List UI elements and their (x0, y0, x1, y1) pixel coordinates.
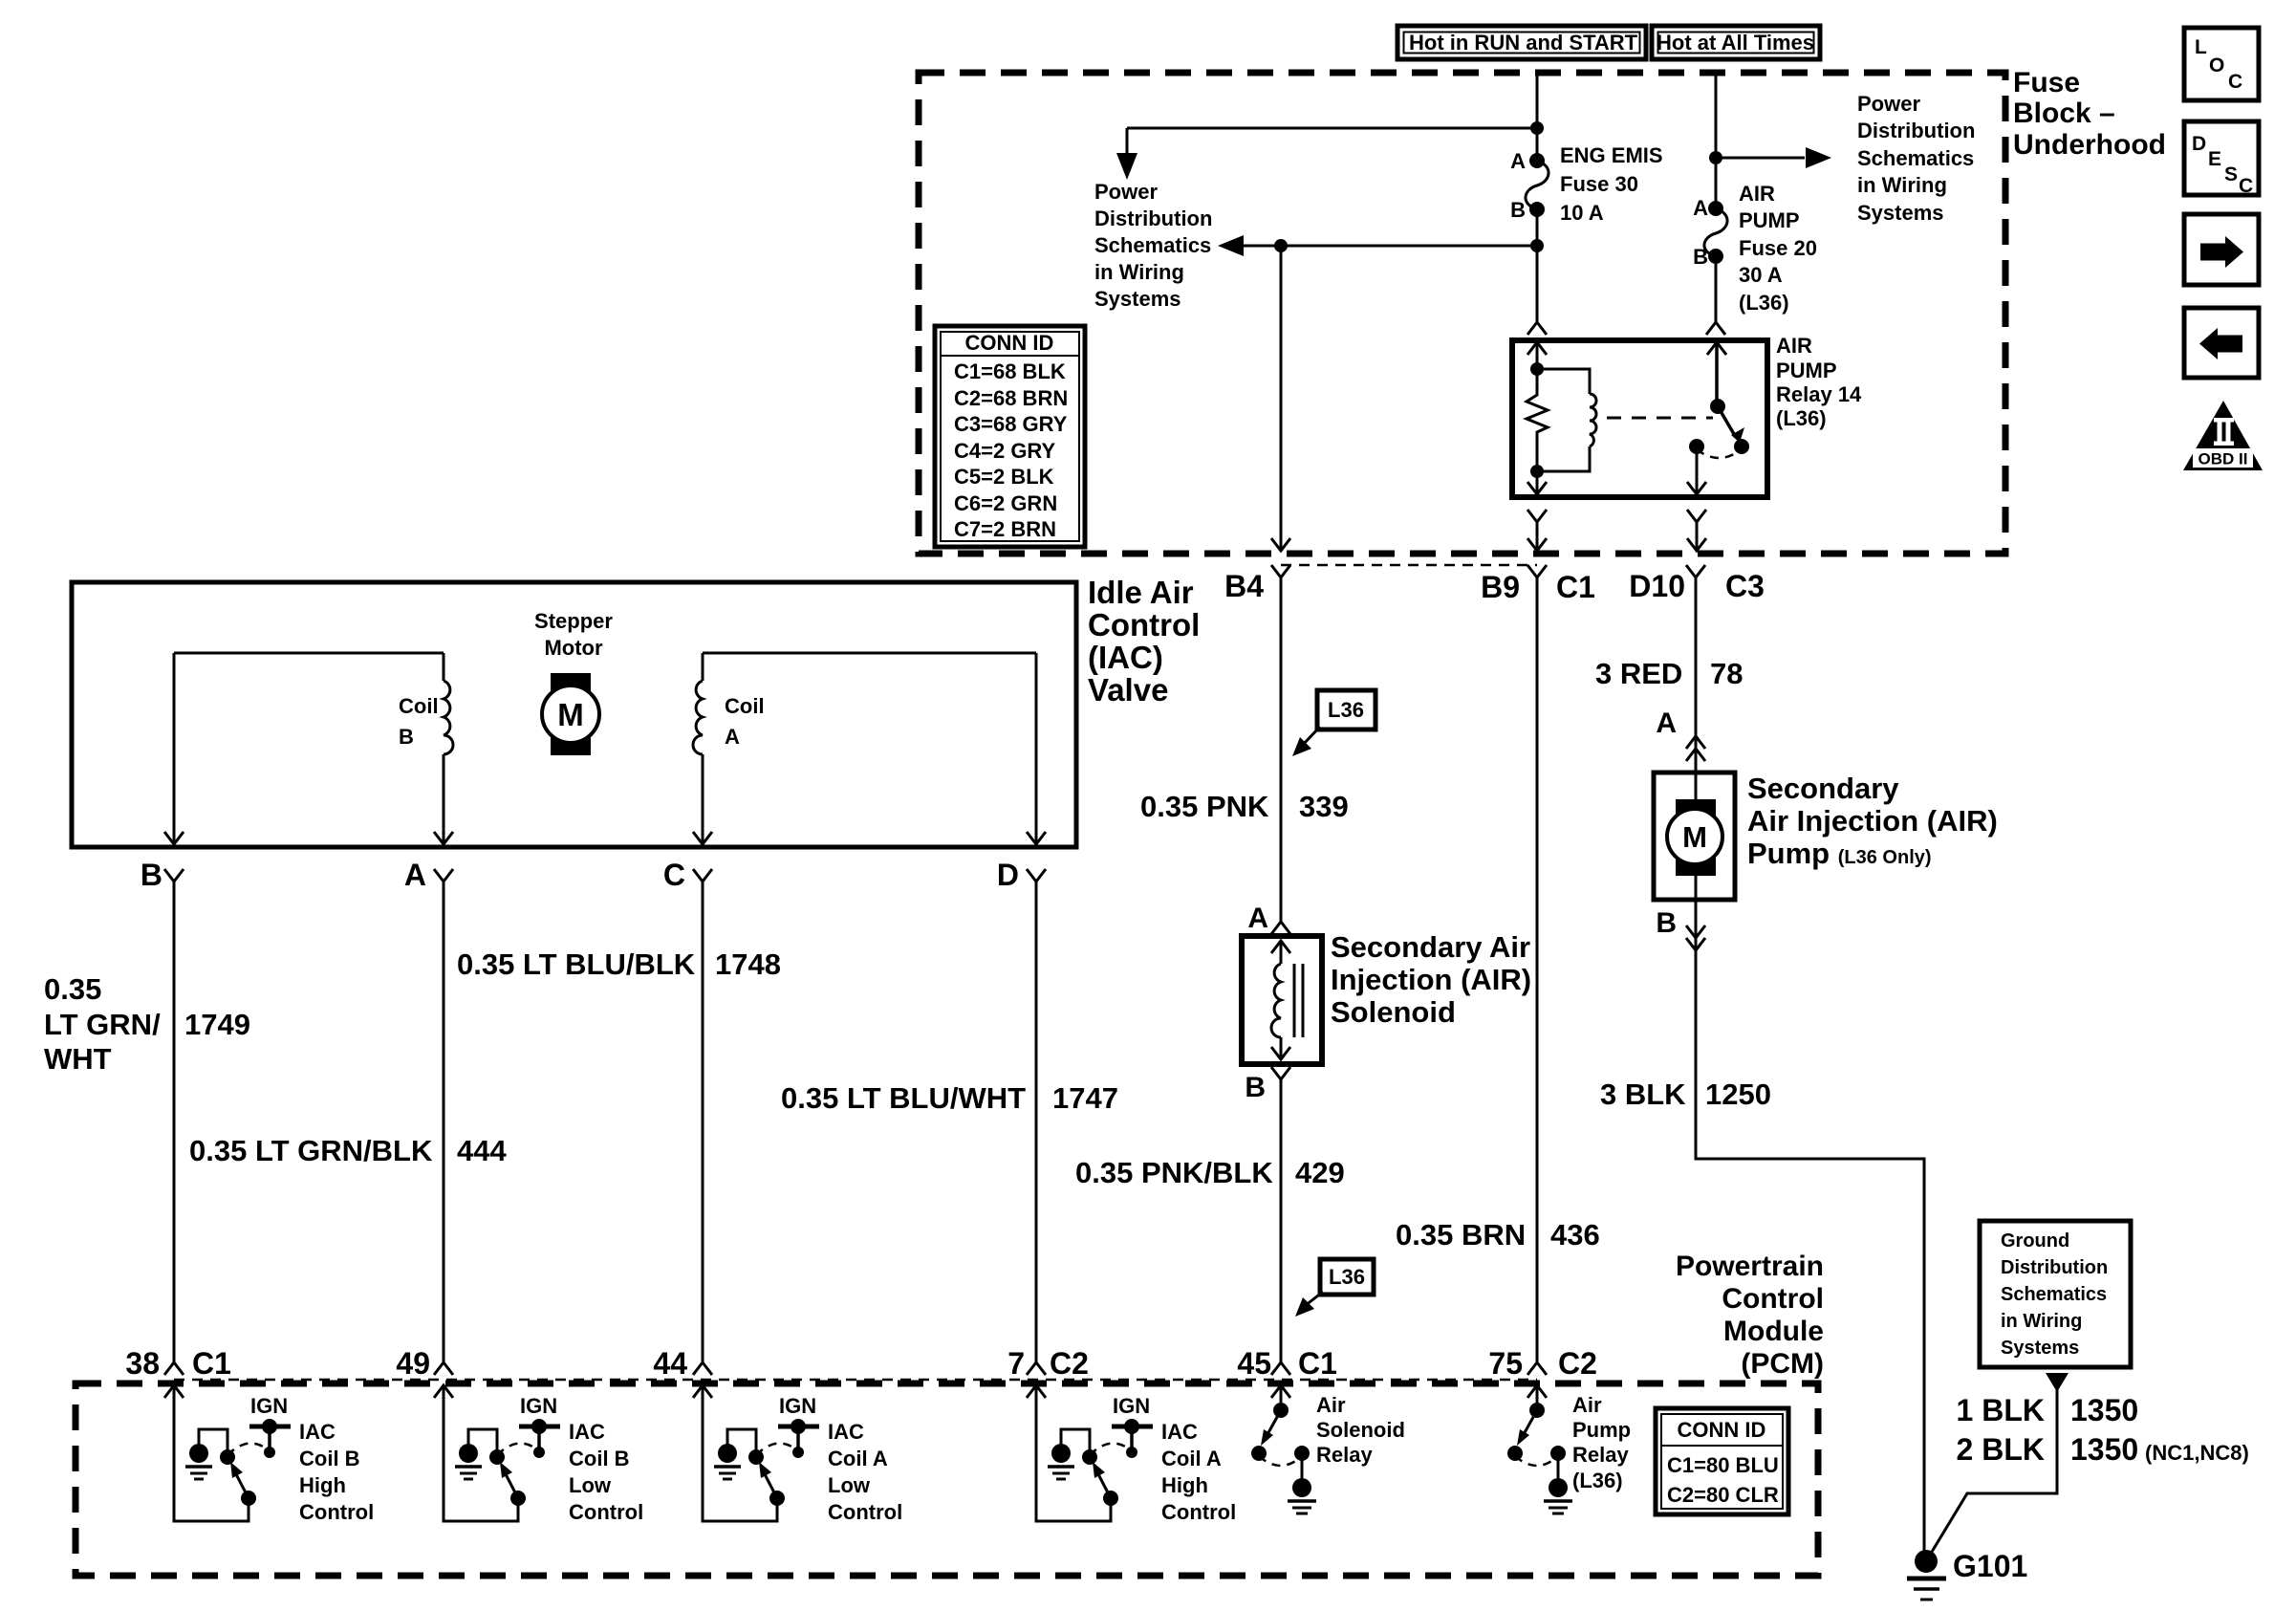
svg-text:IAC: IAC (828, 1420, 864, 1444)
svg-text:Relay 14: Relay 14 (1776, 382, 1862, 406)
svg-text:Coil B: Coil B (299, 1447, 360, 1470)
svg-text:339: 339 (1299, 790, 1349, 823)
svg-text:A: A (725, 725, 740, 749)
svg-text:Systems: Systems (2001, 1338, 2079, 1359)
svg-text:Schematics: Schematics (1857, 146, 1974, 170)
svg-text:436: 436 (1550, 1218, 1600, 1252)
svg-text:Systems: Systems (1094, 287, 1181, 311)
svg-text:Module: Module (1723, 1316, 1824, 1347)
svg-text:C2: C2 (1558, 1346, 1597, 1381)
svg-text:(PCM): (PCM) (1741, 1348, 1824, 1380)
svg-text:Ground: Ground (2001, 1230, 2069, 1252)
svg-text:Control: Control (1722, 1283, 1824, 1315)
svg-text:C2=68 BRN: C2=68 BRN (954, 386, 1068, 410)
svg-text:C2=80 CLR: C2=80 CLR (1667, 1483, 1779, 1507)
svg-text:High: High (299, 1473, 346, 1497)
svg-text:B9: B9 (1481, 570, 1520, 604)
svg-text:LT GRN/: LT GRN/ (44, 1008, 161, 1041)
svg-text:Coil: Coil (725, 694, 765, 718)
svg-text:B4: B4 (1224, 569, 1264, 603)
svg-text:C6=2 GRN: C6=2 GRN (954, 491, 1057, 515)
svg-text:Control: Control (569, 1500, 643, 1524)
svg-text:C1=68 BLK: C1=68 BLK (954, 359, 1066, 383)
svg-text:ENG EMIS: ENG EMIS (1560, 143, 1663, 167)
svg-text:B: B (1510, 198, 1526, 222)
svg-text:0.35 LT BLU/WHT: 0.35 LT BLU/WHT (781, 1081, 1026, 1115)
svg-text:E: E (2208, 148, 2221, 170)
svg-text:Control: Control (1088, 607, 1200, 642)
svg-text:Valve: Valve (1088, 672, 1168, 708)
svg-text:PUMP: PUMP (1776, 359, 1837, 382)
svg-text:Control: Control (828, 1500, 902, 1524)
svg-text:Relay: Relay (1572, 1443, 1629, 1467)
svg-text:M: M (557, 697, 584, 732)
svg-text:(NC1,NC8): (NC1,NC8) (2145, 1441, 2249, 1465)
svg-text:IGN: IGN (520, 1394, 557, 1418)
svg-text:(L36): (L36) (1776, 406, 1827, 430)
svg-text:(L36): (L36) (1572, 1469, 1623, 1492)
svg-text:1350: 1350 (2070, 1393, 2138, 1427)
svg-text:45: 45 (1237, 1346, 1271, 1381)
svg-text:IGN: IGN (1113, 1394, 1150, 1418)
svg-text:C5=2 BLK: C5=2 BLK (954, 465, 1054, 489)
svg-text:B: B (399, 725, 414, 749)
svg-text:Air: Air (1572, 1393, 1602, 1417)
svg-text:IAC: IAC (299, 1420, 336, 1444)
svg-text:CONN ID: CONN ID (965, 331, 1054, 355)
svg-text:Distribution: Distribution (1094, 207, 1212, 230)
svg-text:C1: C1 (1556, 570, 1595, 604)
svg-text:Secondary: Secondary (1747, 772, 1899, 805)
svg-text:Pump: Pump (1572, 1418, 1631, 1442)
svg-text:Air: Air (1316, 1393, 1346, 1417)
svg-text:10 A: 10 A (1560, 201, 1604, 225)
svg-text:44: 44 (653, 1346, 687, 1381)
svg-text:Air Injection (AIR): Air Injection (AIR) (1747, 804, 1998, 838)
svg-text:Powertrain: Powertrain (1676, 1251, 1824, 1282)
svg-text:L36: L36 (1328, 698, 1364, 722)
svg-text:C1=80 BLU: C1=80 BLU (1667, 1453, 1779, 1477)
svg-text:O: O (2209, 54, 2224, 76)
svg-text:Idle Air: Idle Air (1088, 575, 1194, 610)
svg-text:B: B (1693, 245, 1708, 269)
svg-text:Control: Control (1161, 1500, 1236, 1524)
svg-text:Motor: Motor (544, 636, 603, 660)
svg-text:Schematics: Schematics (1094, 233, 1211, 257)
svg-text:D: D (997, 858, 1019, 892)
svg-text:AIR: AIR (1776, 334, 1812, 358)
svg-text:C4=2 GRY: C4=2 GRY (954, 439, 1056, 463)
svg-text:7: 7 (1007, 1346, 1025, 1381)
svg-text:IGN: IGN (250, 1394, 288, 1418)
svg-text:L36: L36 (1329, 1265, 1365, 1289)
svg-text:49: 49 (396, 1346, 430, 1381)
svg-text:G101: G101 (1953, 1549, 2027, 1583)
svg-text:Solenoid: Solenoid (1316, 1418, 1405, 1442)
svg-text:M: M (1682, 820, 1707, 854)
svg-text:B: B (1245, 1072, 1266, 1103)
svg-text:IAC: IAC (569, 1420, 605, 1444)
svg-text:S: S (2224, 163, 2238, 185)
svg-text:1748: 1748 (715, 947, 781, 981)
svg-text:D10: D10 (1629, 569, 1685, 603)
svg-text:Stepper: Stepper (534, 609, 613, 633)
svg-text:IGN: IGN (779, 1394, 816, 1418)
svg-text:B: B (141, 858, 162, 892)
svg-text:2 BLK: 2 BLK (1957, 1432, 2045, 1467)
svg-text:L: L (2195, 36, 2207, 58)
svg-text:Systems: Systems (1857, 201, 1944, 225)
svg-text:A: A (1656, 708, 1677, 739)
svg-text:Underhood: Underhood (2013, 129, 2166, 161)
svg-text:Control: Control (299, 1500, 374, 1524)
svg-text:38: 38 (125, 1346, 160, 1381)
svg-text:1 BLK: 1 BLK (1957, 1393, 2045, 1427)
svg-text:Coil A: Coil A (828, 1447, 888, 1470)
svg-text:CONN ID: CONN ID (1678, 1418, 1766, 1442)
svg-text:Power: Power (1857, 92, 1920, 116)
svg-text:B: B (1656, 907, 1677, 939)
svg-text:(L36): (L36) (1739, 291, 1789, 315)
svg-text:in Wiring: in Wiring (1094, 260, 1184, 284)
svg-text:C7=2 BRN: C7=2 BRN (954, 517, 1056, 541)
svg-text:(IAC): (IAC) (1088, 640, 1163, 675)
svg-text:Distribution: Distribution (1857, 119, 1975, 142)
svg-text:0.35 PNK: 0.35 PNK (1140, 790, 1269, 823)
svg-text:C: C (2239, 175, 2253, 197)
svg-text:Fuse 30: Fuse 30 (1560, 172, 1638, 196)
svg-text:Coil A: Coil A (1161, 1447, 1222, 1470)
svg-text:Solenoid: Solenoid (1331, 995, 1456, 1029)
svg-text:Low: Low (828, 1473, 871, 1497)
svg-text:PUMP: PUMP (1739, 208, 1800, 232)
svg-text:C3=68 GRY: C3=68 GRY (954, 412, 1068, 436)
svg-text:A: A (1693, 196, 1708, 220)
svg-text:Relay: Relay (1316, 1443, 1373, 1467)
svg-text:IAC: IAC (1161, 1420, 1198, 1444)
svg-text:1747: 1747 (1052, 1081, 1118, 1115)
svg-text:in Wiring: in Wiring (1857, 173, 1947, 197)
svg-text:Schematics: Schematics (2001, 1284, 2107, 1305)
svg-text:A: A (1247, 903, 1268, 934)
svg-text:0.35: 0.35 (44, 972, 101, 1006)
svg-text:30 A: 30 A (1739, 263, 1783, 287)
svg-text:75: 75 (1488, 1346, 1523, 1381)
svg-text:0.35 LT BLU/BLK: 0.35 LT BLU/BLK (457, 947, 696, 981)
svg-text:Distribution: Distribution (2001, 1257, 2108, 1278)
svg-text:0.35 BRN: 0.35 BRN (1396, 1218, 1526, 1252)
svg-text:3 RED: 3 RED (1595, 657, 1682, 690)
svg-text:Coil: Coil (399, 694, 439, 718)
svg-text:C1: C1 (1298, 1346, 1337, 1381)
svg-text:Fuse: Fuse (2013, 67, 2080, 98)
svg-text:C1: C1 (192, 1346, 231, 1381)
svg-text:444: 444 (457, 1134, 507, 1167)
svg-text:D: D (2192, 133, 2206, 155)
svg-text:Hot at All Times: Hot at All Times (1657, 31, 1814, 54)
svg-text:0.35 PNK/BLK: 0.35 PNK/BLK (1075, 1156, 1273, 1189)
svg-text:Coil B: Coil B (569, 1447, 630, 1470)
svg-text:in Wiring: in Wiring (2001, 1311, 2082, 1332)
svg-text:Fuse 20: Fuse 20 (1739, 236, 1817, 260)
svg-text:1350: 1350 (2070, 1432, 2138, 1467)
svg-text:Block –: Block – (2013, 98, 2115, 129)
svg-text:1749: 1749 (184, 1008, 250, 1041)
svg-text:A: A (1510, 149, 1526, 173)
svg-text:3 BLK: 3 BLK (1600, 1078, 1686, 1111)
svg-text:AIR: AIR (1739, 182, 1775, 206)
svg-text:Injection (AIR): Injection (AIR) (1331, 963, 1531, 996)
svg-text:Low: Low (569, 1473, 612, 1497)
svg-text:A: A (404, 858, 426, 892)
svg-text:429: 429 (1295, 1156, 1345, 1189)
svg-text:C: C (663, 858, 685, 892)
svg-text:Hot in RUN and START: Hot in RUN and START (1409, 31, 1638, 54)
svg-text:OBD II: OBD II (2199, 450, 2248, 468)
svg-text:C2: C2 (1050, 1346, 1089, 1381)
svg-text:Power: Power (1094, 180, 1158, 204)
svg-text:1250: 1250 (1705, 1078, 1771, 1111)
svg-text:C: C (2228, 71, 2242, 93)
svg-text:0.35 LT GRN/BLK: 0.35 LT GRN/BLK (189, 1134, 433, 1167)
svg-text:Secondary Air: Secondary Air (1331, 930, 1530, 964)
svg-text:C3: C3 (1725, 569, 1765, 603)
svg-text:78: 78 (1710, 657, 1743, 690)
svg-text:WHT: WHT (44, 1042, 112, 1076)
svg-text:High: High (1161, 1473, 1208, 1497)
